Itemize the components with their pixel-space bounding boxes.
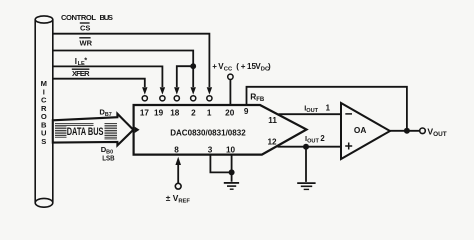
svg-text:2: 2: [191, 109, 196, 118]
svg-text:9: 9: [244, 107, 249, 116]
svg-text:19: 19: [154, 109, 164, 118]
svg-text:1: 1: [326, 104, 331, 113]
svg-text:8: 8: [174, 145, 179, 154]
svg-text:20: 20: [225, 109, 235, 118]
svg-text:S: S: [41, 137, 46, 146]
svg-text:DAC0830/0831/0832: DAC0830/0831/0832: [170, 128, 246, 138]
svg-text:2: 2: [320, 134, 325, 143]
svg-text:+: +: [241, 62, 246, 71]
svg-text:11: 11: [268, 116, 277, 125]
svg-text:18: 18: [170, 109, 180, 118]
svg-text:± VREF: ± VREF: [166, 193, 191, 205]
svg-text:IOUT: IOUT: [305, 134, 319, 144]
svg-text:+: +: [212, 62, 217, 71]
svg-text:VOUT: VOUT: [427, 126, 446, 138]
svg-text:CC: CC: [224, 66, 233, 72]
svg-text:10: 10: [226, 145, 236, 154]
svg-text:RFB: RFB: [250, 92, 265, 104]
svg-text:XFER: XFER: [72, 69, 90, 78]
svg-text:LSB: LSB: [102, 154, 114, 163]
svg-text:1: 1: [207, 109, 212, 118]
svg-text:*: *: [84, 56, 87, 65]
svg-text:DATA BUS: DATA BUS: [67, 126, 104, 138]
svg-text:WR: WR: [80, 38, 93, 47]
svg-text:CS: CS: [80, 24, 90, 33]
svg-text:3: 3: [208, 145, 213, 154]
svg-text:17: 17: [140, 109, 150, 118]
svg-text:DB7: DB7: [99, 108, 111, 119]
svg-text:): ): [268, 62, 271, 71]
svg-text:IOUT: IOUT: [304, 104, 318, 114]
svg-text:OA: OA: [354, 125, 366, 135]
svg-text:CONTROL: CONTROL: [61, 13, 96, 22]
svg-text:BUS: BUS: [100, 13, 114, 22]
svg-text:12: 12: [267, 137, 277, 146]
svg-text:(: (: [236, 62, 239, 71]
